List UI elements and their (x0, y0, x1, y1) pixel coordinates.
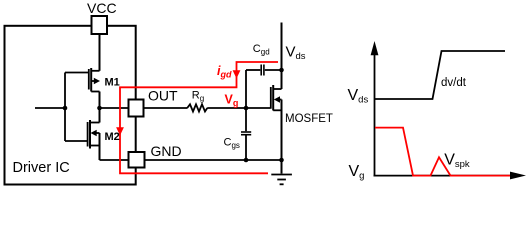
svg-text:VCC: VCC (87, 0, 117, 16)
svg-text:igd: igd (217, 64, 232, 80)
svg-text:OUT: OUT (148, 88, 178, 104)
svg-text:Vds: Vds (286, 44, 306, 63)
svg-text:MOSFET: MOSFET (285, 113, 333, 125)
svg-text:M2: M2 (105, 131, 120, 143)
svg-text:Vspk: Vspk (444, 152, 470, 171)
svg-text:Vg: Vg (349, 163, 365, 182)
svg-text:Cgs: Cgs (224, 137, 240, 151)
svg-text:Driver IC: Driver IC (13, 160, 70, 176)
svg-text:GND: GND (151, 143, 182, 159)
svg-text:Vds: Vds (348, 87, 369, 106)
svg-text:Cgd: Cgd (253, 43, 270, 57)
svg-text:dv/dt: dv/dt (441, 77, 467, 89)
svg-text:M1: M1 (105, 77, 120, 89)
svg-text:Rg: Rg (192, 90, 204, 104)
svg-text:Vg: Vg (225, 92, 239, 108)
